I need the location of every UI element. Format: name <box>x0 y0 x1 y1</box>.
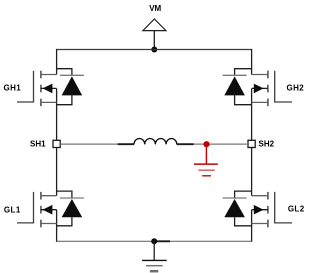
inductor left lead <box>118 143 134 145</box>
wire left rail GL1 drain lead <box>56 148 58 196</box>
ground bar 2 <box>146 265 163 267</box>
transistor GH2 gate lead <box>275 71 292 102</box>
transistor GH1 channel bar source <box>40 99 42 107</box>
transistor GL1 body arrow <box>43 205 53 215</box>
transistor GL1 channel bar body <box>40 206 42 214</box>
diode GL1 body diode top link <box>57 191 72 199</box>
transistor GL1 source stub <box>41 223 57 225</box>
transistor GL2 body arrow <box>254 205 264 215</box>
wire bottom rail dark segment <box>156 240 171 242</box>
transistor GL1 channel bar source <box>40 220 42 228</box>
diode GH2 bottom link <box>235 95 252 104</box>
transistor GH1 gate lead <box>17 71 34 102</box>
wire ground stem <box>153 241 155 260</box>
wire top rail <box>57 49 252 51</box>
transistor GH1 body arrow <box>43 84 53 94</box>
transistor GL1 gate lead <box>17 192 34 223</box>
diode GL1 triangle <box>62 199 83 217</box>
diode GL2 triangle <box>224 199 245 217</box>
transistor GL2 source stub <box>252 223 268 225</box>
transistor GL1 drain stub <box>41 195 57 197</box>
node SH2 terminal square <box>248 140 255 147</box>
transistor GL2 body line <box>252 209 268 211</box>
transistor GH2 source stub <box>252 101 268 103</box>
wire left rail GH1 source lead to SH1 <box>56 89 58 141</box>
inductor right lead <box>177 143 194 145</box>
wire right rail GH2 source lead to SH2 <box>251 89 253 141</box>
ground red bar 2 <box>199 169 215 171</box>
ground red bar 1 <box>194 163 218 165</box>
wire red ground stem <box>205 144 207 164</box>
transistor GL1 body line <box>41 209 57 211</box>
transistor GL2 channel bar source <box>267 220 269 228</box>
junction dot VM on top rail <box>151 47 157 53</box>
transistor GH2 drain stub <box>252 74 268 76</box>
transistor GH1 source stub <box>41 101 57 103</box>
wire bottom rail <box>57 240 252 242</box>
diode GL2 bottom link <box>235 217 252 226</box>
wire VM stem <box>153 31 155 50</box>
svg-text:VM: VM <box>149 4 161 13</box>
diode GH2 cathode bar <box>223 74 247 76</box>
ground red bar 3 <box>202 175 211 177</box>
node SH1 terminal square <box>53 140 60 147</box>
wire left rail GH1 drain lead <box>56 49 58 75</box>
transistor GL2 channel bar drain <box>267 192 269 200</box>
svg-text:GH1: GH1 <box>3 83 21 92</box>
wire SH1 to inductor <box>60 143 118 145</box>
transistor GH2 channel bar source <box>267 99 269 107</box>
diode GH1 triangle <box>62 76 83 95</box>
diode GL2 body diode top link <box>235 191 252 199</box>
transistor GH2 body line <box>252 87 268 89</box>
transistor GH1 channel bar drain <box>40 71 42 79</box>
transistor GL2 drain stub <box>252 195 268 197</box>
ground bar 3 <box>150 270 158 273</box>
wire right rail GL2 drain lead <box>251 148 253 196</box>
junction dot red ground tap <box>203 141 209 147</box>
wire right rail GL2 source lead to bottom rail <box>251 210 253 242</box>
diode GL1 cathode bar <box>60 197 84 199</box>
diode GH2 body diode top link <box>235 69 252 76</box>
diode GH1 cathode bar <box>60 74 84 76</box>
transistor GL2 channel bar body <box>267 206 269 214</box>
diode GL1 bottom link <box>57 217 72 226</box>
svg-text:SH2: SH2 <box>259 139 275 148</box>
svg-text:SH1: SH1 <box>30 139 46 148</box>
transistor GH1 channel bar body <box>40 85 42 93</box>
junction dot ground on bottom rail <box>151 238 157 244</box>
transistor GL2 gate lead <box>275 192 292 223</box>
wire inductor to SH2 <box>194 143 248 145</box>
svg-text:GH2: GH2 <box>286 83 304 92</box>
transistor GH1 body line <box>41 87 57 89</box>
svg-text:GL1: GL1 <box>4 206 21 215</box>
transistor GH2 channel bar body <box>267 85 269 93</box>
transistor GL1 channel bar drain <box>40 192 42 200</box>
transistor GH2 channel bar drain <box>267 71 269 79</box>
diode GL2 cathode bar <box>223 197 247 199</box>
diode GH1 bottom link <box>57 95 72 104</box>
diode GH2 triangle <box>224 76 245 95</box>
transistor GH1 drain stub <box>41 74 57 76</box>
diode GH1 body diode top link <box>57 69 72 76</box>
wire left rail GL1 source lead to bottom rail <box>56 210 58 242</box>
inductor L1 coil <box>134 139 177 145</box>
power symbol VM triangle <box>143 19 166 31</box>
svg-text:GL2: GL2 <box>288 205 305 214</box>
ground bar 1 <box>142 259 167 261</box>
wire right rail GH2 drain lead <box>251 49 253 75</box>
transistor GH2 body arrow <box>254 84 264 94</box>
